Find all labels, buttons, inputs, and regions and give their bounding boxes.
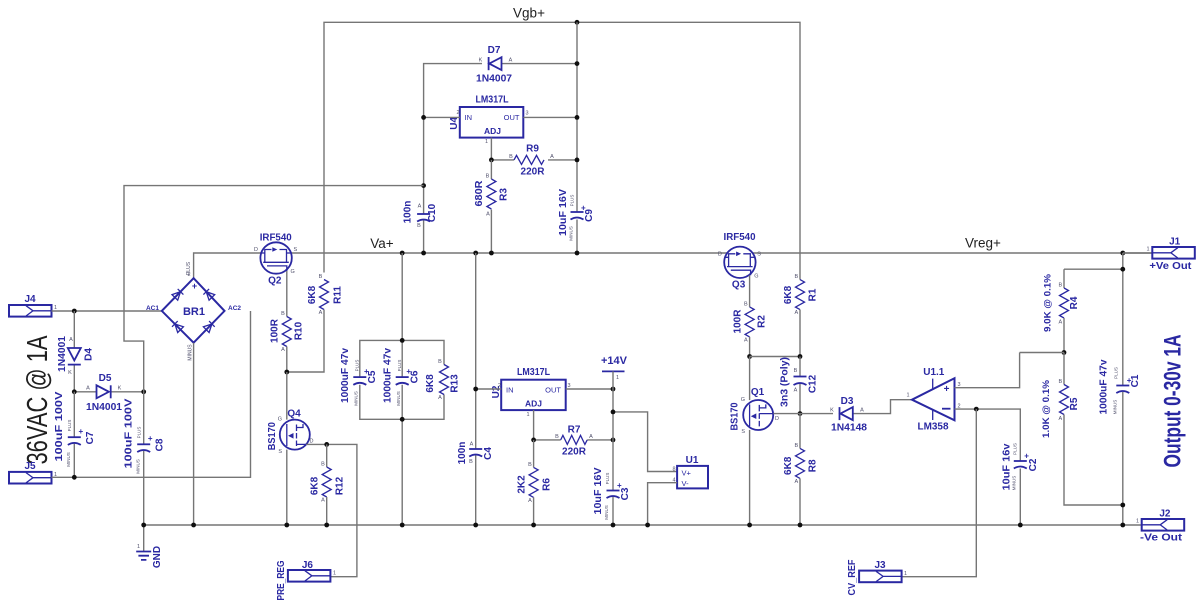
svg-text:C2: C2 <box>1028 458 1039 471</box>
svg-text:B: B <box>486 174 490 180</box>
svg-text:100n: 100n <box>457 442 468 465</box>
connector J4 <box>9 294 57 317</box>
junction D4/D5/C7 <box>72 389 77 394</box>
wire U2 OUT pin <box>566 388 613 390</box>
svg-text:B: B <box>417 223 421 229</box>
wire CV_REF column <box>902 409 977 577</box>
svg-text:D5: D5 <box>99 373 112 384</box>
svg-text:6K8: 6K8 <box>310 476 321 495</box>
svg-text:A: A <box>1058 320 1062 326</box>
svg-text:A: A <box>794 388 798 394</box>
svg-text:B: B <box>438 359 442 365</box>
svg-text:100R: 100R <box>270 318 281 343</box>
wire U2 IN pin <box>476 388 502 390</box>
svg-text:R3: R3 <box>499 188 510 201</box>
svg-text:BR1: BR1 <box>183 306 205 318</box>
svg-text:+: + <box>148 434 153 443</box>
svg-text:B: B <box>528 462 532 468</box>
junction D5/C8 column <box>141 389 146 394</box>
svg-text:2K2: 2K2 <box>517 475 528 494</box>
svg-text:1N4007: 1N4007 <box>476 74 512 85</box>
svg-text:A: A <box>860 408 864 414</box>
wire U4 IN pin <box>424 116 460 118</box>
junction R2/R1/C12 row <box>747 354 752 359</box>
resistor R9 220R <box>491 144 577 178</box>
wire C5/C6/R13 top bus <box>360 340 444 377</box>
svg-text:10uF 16V: 10uF 16V <box>593 467 604 514</box>
svg-text:D3: D3 <box>841 396 854 407</box>
svg-text:R9: R9 <box>526 144 539 155</box>
junction C10 top wire <box>421 183 426 188</box>
resistor R12 6K8 <box>310 444 346 525</box>
power symbol +14V <box>601 355 628 389</box>
svg-text:K: K <box>118 386 122 392</box>
svg-text:S: S <box>294 247 298 253</box>
junction Q1 source at ground <box>747 523 752 528</box>
svg-text:PLUS: PLUS <box>1114 367 1119 379</box>
svg-text:A: A <box>794 479 798 485</box>
junction on Vgb+ rail at C9 column <box>575 20 580 25</box>
svg-text:+: + <box>192 281 197 291</box>
svg-text:IRF540: IRF540 <box>260 233 292 244</box>
regulator U2 LM317L <box>491 367 571 418</box>
svg-text:A: A <box>744 337 748 343</box>
junction R10/R11/Q4 gate <box>284 370 289 375</box>
svg-text:PRE_REG: PRE_REG <box>276 560 287 600</box>
svg-text:K: K <box>479 58 483 64</box>
svg-text:Q4: Q4 <box>287 409 301 420</box>
wire Q4 source to ground <box>286 450 288 525</box>
node Vgb+ label <box>513 6 545 21</box>
wire Q1 drain to C12 node <box>773 413 800 415</box>
svg-text:A: A <box>86 386 90 392</box>
junction J5/C7 <box>72 475 77 480</box>
wire op-amp +input <box>955 353 1020 388</box>
svg-text:A: A <box>470 442 474 448</box>
connector J5 <box>9 461 57 484</box>
svg-text:100uF 100V: 100uF 100V <box>54 391 65 461</box>
wire U1 V- to ground <box>648 483 678 525</box>
svg-text:U1.1: U1.1 <box>923 367 945 378</box>
svg-text:A: A <box>438 395 442 401</box>
resistor R1 6K8 <box>783 274 819 356</box>
svg-text:R13: R13 <box>450 374 461 393</box>
junction Va+ at C10 <box>421 251 426 256</box>
svg-text:A: A <box>509 58 513 64</box>
svg-text:100n: 100n <box>403 201 414 224</box>
junction -input / CV_REF column <box>974 407 979 412</box>
wire +14V column down to C3 <box>612 389 614 525</box>
svg-text:1: 1 <box>616 375 619 381</box>
svg-text:+: + <box>617 481 622 490</box>
svg-text:A: A <box>321 498 325 504</box>
svg-text:Q3: Q3 <box>732 280 746 291</box>
svg-text:C1: C1 <box>1130 374 1141 387</box>
junction U1 V- at ground <box>645 523 650 528</box>
junction C3 at ground <box>611 523 616 528</box>
svg-text:B: B <box>281 311 285 317</box>
capacitor C2 10uF 16v <box>1002 443 1040 525</box>
transistor Q4 BS170 <box>267 409 314 456</box>
diode D5 1N4001 <box>74 373 143 413</box>
connector J6 PRE_REG <box>276 560 336 601</box>
junction C4 column at ground <box>473 523 478 528</box>
connector J2 -Ve Out <box>1136 508 1184 543</box>
wire +14V branch to U1 V+ <box>613 412 677 472</box>
junction C6 column at ground <box>400 523 405 528</box>
svg-text:A: A <box>486 212 490 218</box>
svg-text:1.0K @ 0.1%: 1.0K @ 0.1% <box>1041 379 1052 438</box>
svg-text:+: + <box>79 427 84 436</box>
svg-text:D4: D4 <box>84 348 95 361</box>
connector J3 CV_REF <box>847 560 907 596</box>
svg-text:6K8: 6K8 <box>783 456 794 475</box>
junction C2 at ground <box>1018 523 1023 528</box>
svg-text:BS170: BS170 <box>267 422 278 450</box>
junction Va+ at R3 <box>489 251 494 256</box>
svg-text:3: 3 <box>526 111 529 117</box>
junction +14V branch <box>611 410 616 415</box>
svg-text:B: B <box>744 301 748 307</box>
svg-text:A: A <box>281 347 285 353</box>
svg-text:1000uF 47v: 1000uF 47v <box>1099 359 1110 414</box>
svg-text:V+: V+ <box>682 469 692 478</box>
wire R4/R5 node to +input corner <box>1020 352 1064 354</box>
svg-text:1000uF 47v: 1000uF 47v <box>382 348 393 403</box>
svg-text:+Ve Out: +Ve Out <box>1149 261 1192 272</box>
svg-text:3: 3 <box>568 383 571 389</box>
svg-text:3n3 (Poly): 3n3 (Poly) <box>780 357 791 407</box>
svg-text:D: D <box>310 439 314 445</box>
svg-text:A: A <box>550 154 554 160</box>
op-amp U1.1 LM358 <box>907 367 961 433</box>
op-amp regulator U4 LM317L <box>449 95 529 146</box>
junction R5 jog / C1 column <box>1120 503 1125 508</box>
svg-text:LM317L: LM317L <box>476 95 509 106</box>
svg-text:100R: 100R <box>733 309 744 334</box>
resistor R8 6K8 <box>783 414 819 525</box>
svg-text:A: A <box>528 498 532 504</box>
junction ground at C8/GND <box>141 523 146 528</box>
label 36VAC @ 1A <box>22 335 54 464</box>
svg-text:IRF540: IRF540 <box>724 232 756 243</box>
wire U4 OUT pin <box>523 116 577 118</box>
svg-text:U1: U1 <box>686 455 699 466</box>
wire U4 ADJ pin <box>490 138 492 160</box>
resistor R5 1.0K @ 0.1% <box>1041 353 1123 506</box>
capacitor C3 10uF 16V <box>593 467 631 520</box>
svg-text:B: B <box>555 434 559 440</box>
svg-text:OUT: OUT <box>504 113 520 122</box>
svg-text:9.0K @ 0.1%: 9.0K @ 0.1% <box>1043 273 1054 332</box>
node Vreg+ label <box>965 236 1001 251</box>
svg-text:+: + <box>364 367 369 376</box>
resistor R7 220R <box>534 425 613 458</box>
ground symbol GND <box>136 525 163 568</box>
svg-text:36VAC @ 1A: 36VAC @ 1A <box>22 335 54 464</box>
svg-text:2: 2 <box>498 383 501 389</box>
svg-text:MINUS: MINUS <box>188 344 194 361</box>
svg-text:100uF 100V: 100uF 100V <box>124 398 135 468</box>
svg-text:R11: R11 <box>333 286 344 304</box>
svg-text:6K8: 6K8 <box>783 285 794 304</box>
svg-text:A: A <box>1058 416 1062 422</box>
bridge diode AC1 to plus <box>172 289 183 300</box>
svg-text:J2: J2 <box>1159 508 1171 519</box>
junction Vreg+ at J1 column <box>1120 251 1125 256</box>
svg-text:B: B <box>1058 379 1062 385</box>
wire op-amp -input <box>955 409 1021 461</box>
wire R2 to R1 node <box>750 356 800 358</box>
svg-text:8: 8 <box>673 467 676 473</box>
svg-text:C12: C12 <box>808 374 819 393</box>
svg-text:A: A <box>418 204 422 210</box>
svg-text:D: D <box>254 247 258 253</box>
bridge diode AC2 to plus <box>203 289 214 300</box>
svg-text:+: + <box>1127 376 1132 385</box>
svg-text:J1: J1 <box>1169 236 1181 247</box>
svg-text:R4: R4 <box>1069 296 1080 309</box>
svg-text:220R: 220R <box>521 167 546 178</box>
svg-text:IN: IN <box>465 113 473 122</box>
wire U2 IN feed column <box>475 253 477 525</box>
svg-text:1: 1 <box>1146 247 1149 253</box>
junction U4 OUT <box>575 115 580 120</box>
svg-text:A: A <box>794 310 798 316</box>
svg-text:R6: R6 <box>542 478 553 491</box>
bridge diode minus to AC1 <box>172 321 183 332</box>
junction C1 column branch <box>1120 267 1125 272</box>
junction ADJ/R7/R6 <box>531 438 536 443</box>
wire Q2 gate down to R10 <box>286 271 288 317</box>
svg-text:6K8: 6K8 <box>425 374 436 393</box>
svg-text:1: 1 <box>333 571 336 577</box>
svg-text:J5: J5 <box>24 461 36 472</box>
svg-text:LM317L: LM317L <box>517 367 550 378</box>
svg-text:J6: J6 <box>302 560 314 571</box>
junction C1 column at ground <box>1120 523 1125 528</box>
wire BR1 minus to ground rail <box>193 343 195 525</box>
bridge rectifier BR1 <box>146 261 241 360</box>
wire U2 ADJ pin <box>533 410 535 440</box>
svg-text:R5: R5 <box>1069 397 1080 410</box>
svg-text:+14V: +14V <box>601 355 628 367</box>
wire C10-top feed (y=185.6 row, down left side to D5 node) <box>124 186 424 392</box>
svg-text:PLUS: PLUS <box>137 427 142 439</box>
svg-text:G: G <box>754 273 758 279</box>
svg-text:K: K <box>830 408 834 414</box>
op-amp supply block U1 <box>673 455 709 488</box>
resistor R11 6K8 <box>287 274 344 372</box>
svg-text:2: 2 <box>187 272 190 278</box>
junction R12 at ground <box>324 523 329 528</box>
svg-text:1: 1 <box>527 412 530 418</box>
svg-text:1: 1 <box>904 571 907 577</box>
svg-text:B: B <box>794 368 798 374</box>
junction bottom bus / C6 column <box>400 417 405 422</box>
wire J5 row to AC2 column <box>52 311 251 477</box>
resistor R10 100R <box>270 311 305 372</box>
svg-text:A: A <box>589 434 593 440</box>
capacitor C6 1000uF 47v <box>382 348 420 406</box>
svg-text:B: B <box>794 443 798 449</box>
svg-text:R2: R2 <box>757 315 768 328</box>
svg-text:Q2: Q2 <box>268 276 282 287</box>
svg-text:PLUS: PLUS <box>397 360 402 372</box>
capacitor C12 3n3 (Poly) <box>780 357 819 414</box>
svg-text:B: B <box>321 462 325 468</box>
transistor Q3 IRF540 <box>718 232 761 291</box>
svg-text:MINUS: MINUS <box>354 391 359 406</box>
diode D4 1N4001 <box>57 311 95 392</box>
svg-text:CV_REF: CV_REF <box>847 560 858 596</box>
capacitor C10 100n <box>403 186 439 253</box>
ground rail <box>144 524 1142 526</box>
wire Q4 drain row <box>306 444 357 576</box>
label Output 0-30v 1A <box>1160 335 1187 468</box>
wire Va+ feed through C6 column <box>401 253 403 525</box>
capacitor C1 1000uF 47v <box>1099 359 1142 414</box>
svg-text:+: + <box>406 367 411 376</box>
svg-text:D: D <box>775 416 779 422</box>
svg-text:MINUS: MINUS <box>1113 400 1118 415</box>
svg-text:-Ve Out: -Ve Out <box>1140 533 1183 544</box>
svg-text:1: 1 <box>137 544 140 550</box>
svg-text:C10: C10 <box>427 203 438 222</box>
svg-text:680R: 680R <box>474 180 485 207</box>
capacitor C8 100uF 100V <box>124 392 166 525</box>
svg-text:PLUS: PLUS <box>67 420 72 432</box>
svg-text:GND: GND <box>152 546 163 568</box>
svg-text:G: G <box>291 269 295 275</box>
junction R4/R5/+input <box>1062 350 1067 355</box>
junction Q4 drain / R12 <box>324 442 329 447</box>
wire D7 row <box>424 22 577 212</box>
svg-text:G: G <box>278 417 282 423</box>
svg-text:B: B <box>794 274 798 280</box>
svg-text:C4: C4 <box>483 447 494 460</box>
svg-text:MINUS: MINUS <box>1012 476 1017 491</box>
svg-text:B: B <box>1058 283 1062 289</box>
junction Va+ at U2 IN column <box>473 251 478 256</box>
node Va+ label <box>370 236 394 251</box>
junction U2 IN <box>473 387 478 392</box>
wire J4 to bridge AC1 <box>52 310 162 312</box>
svg-text:6K8: 6K8 <box>307 285 318 304</box>
svg-text:Va+: Va+ <box>370 236 394 251</box>
svg-text:MINUS: MINUS <box>136 459 141 474</box>
svg-text:D: D <box>718 251 722 257</box>
svg-text:U4: U4 <box>449 116 460 129</box>
svg-text:2: 2 <box>457 110 460 116</box>
junction R8 at ground <box>798 523 803 528</box>
svg-text:1: 1 <box>1136 519 1139 525</box>
svg-text:Q1: Q1 <box>751 387 765 398</box>
svg-text:PLUS: PLUS <box>570 195 575 207</box>
svg-text:+: + <box>1024 452 1029 461</box>
junction ADJ / R9 / R3 <box>489 158 494 163</box>
junction R7/C3/+14V column <box>611 438 616 443</box>
resistor R13 6K8 <box>425 359 461 401</box>
svg-text:K: K <box>68 370 72 376</box>
wire Va+ / Vreg+ main rail <box>194 253 1153 278</box>
svg-text:MINUS: MINUS <box>396 391 401 406</box>
svg-text:AC1: AC1 <box>146 305 159 312</box>
wire Q4 gate from R10/R11 node <box>286 372 288 420</box>
resistor R2 100R <box>733 301 768 356</box>
wire Q3 gate down to R2 <box>749 275 751 307</box>
wire Q1 gate from R2 node <box>749 357 751 401</box>
svg-text:R1: R1 <box>808 288 819 301</box>
wire Q1 source to ground <box>749 430 751 525</box>
svg-text:S: S <box>278 449 282 455</box>
junction U4 IN <box>421 115 426 120</box>
svg-text:AC2: AC2 <box>228 305 241 312</box>
svg-text:IN: IN <box>506 386 514 395</box>
svg-text:1: 1 <box>54 305 57 311</box>
junction R9 right <box>575 158 580 163</box>
capacitor C7 100uF 100V <box>54 391 96 477</box>
junction C12/Q1 drain/D3/R8 <box>798 411 803 416</box>
resistor R6 2K2 <box>517 440 553 525</box>
junction ground at BR1 minus <box>191 523 196 528</box>
diode D7 <box>476 45 513 85</box>
svg-text:OUT: OUT <box>545 386 561 395</box>
junction Va+ at C5/C6 column <box>400 251 405 256</box>
diode D3 1N4148 <box>800 396 912 434</box>
wire R4 top branch <box>1064 268 1123 270</box>
svg-text:J3: J3 <box>874 560 886 571</box>
svg-text:1N4001: 1N4001 <box>86 402 122 413</box>
svg-text:PLUS: PLUS <box>605 473 610 485</box>
svg-text:MINUS: MINUS <box>604 505 609 520</box>
svg-text:1N4001: 1N4001 <box>57 336 68 372</box>
svg-text:A: A <box>319 310 323 316</box>
wire top Vgb+ rail <box>324 22 800 279</box>
svg-text:C7: C7 <box>85 431 96 444</box>
svg-text:Vreg+: Vreg+ <box>965 236 1001 251</box>
resistor R3 680R <box>474 160 510 253</box>
svg-text:S: S <box>741 429 745 435</box>
svg-text:B: B <box>469 459 473 465</box>
junction R1 bottom / C12 top <box>798 354 803 359</box>
svg-text:220R: 220R <box>562 447 587 458</box>
svg-text:R8: R8 <box>808 459 819 472</box>
connector J1 +Ve Out <box>1123 236 1195 272</box>
svg-text:B: B <box>509 154 513 160</box>
bridge diode minus to AC2 <box>203 321 214 332</box>
svg-text:Output 0-30v 1A: Output 0-30v 1A <box>1160 335 1187 468</box>
svg-text:ADJ: ADJ <box>484 126 501 136</box>
wire C5/C6/R13 bottom bus <box>360 385 444 420</box>
transistor Q2 IRF540 <box>254 233 297 287</box>
svg-text:C8: C8 <box>155 438 166 451</box>
svg-text:+: + <box>581 204 586 213</box>
svg-text:V-: V- <box>682 479 690 488</box>
svg-text:A: A <box>69 337 73 343</box>
svg-text:PLUS: PLUS <box>355 360 360 372</box>
svg-text:PLUS: PLUS <box>1013 443 1018 455</box>
svg-text:1: 1 <box>485 139 488 145</box>
transistor Q1 BS170 <box>730 387 780 435</box>
svg-text:1N4148: 1N4148 <box>831 423 867 434</box>
svg-text:G: G <box>741 397 745 403</box>
svg-text:10uF 16V: 10uF 16V <box>558 189 569 236</box>
junction J4/D4 <box>72 309 77 314</box>
svg-text:ADJ: ADJ <box>525 399 542 409</box>
svg-text:1: 1 <box>907 393 910 399</box>
svg-text:D7: D7 <box>488 45 501 56</box>
